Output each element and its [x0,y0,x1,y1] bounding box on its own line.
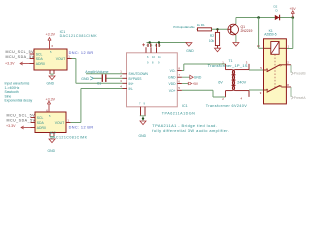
svg-text:VO-: VO- [170,69,176,73]
svg-text:SCL: SCL [37,116,44,120]
svg-text:ADR0: ADR0 [36,62,45,66]
svg-text:C1: C1 [97,82,101,86]
svg-text:GND: GND [47,82,55,86]
svg-text:GND: GND [81,77,89,81]
svg-text:IN-: IN- [129,87,133,91]
svg-text:GND: GND [139,134,147,138]
svg-text:PresetA: PresetA [294,96,307,100]
svg-text:ADR0: ADR0 [37,126,46,130]
svg-text:1k R1: 1k R1 [197,23,205,27]
svg-text:+5V: +5V [192,82,199,86]
svg-text:SDA: SDA [37,121,45,125]
svg-text:SDA: SDA [36,57,44,61]
svg-text:10k: 10k [209,39,215,43]
svg-text:GND: GND [168,76,176,80]
svg-text:GND: GND [186,49,194,53]
svg-text:VDD: VDD [169,82,177,86]
svg-text:TPA6211A1DGN: TPA6211A1DGN [162,112,196,116]
svg-text:2N2219: 2N2219 [241,29,253,33]
svg-text:VO+: VO+ [169,89,176,93]
svg-text:IC1: IC1 [182,104,188,108]
svg-text:+5V: +5V [290,7,297,11]
svg-text:Transformer_1P_1S: Transformer_1P_1S [208,63,248,68]
svg-text:PresetB: PresetB [294,72,307,76]
svg-text:BYPASS: BYPASS [129,77,143,81]
svg-text:MCU_SCL_5V: MCU_SCL_5V [7,114,36,118]
svg-text:+3.3V: +3.3V [46,97,56,101]
svg-text:SHUTDOWN: SHUTDOWN [129,72,149,76]
svg-text:VOUT: VOUT [55,121,64,125]
svg-text:Transformer 6V240V: Transformer 6V240V [206,104,248,108]
svg-text:MCU_SDA_5V: MCU_SDA_5V [6,55,35,59]
svg-text:+3.3V: +3.3V [46,33,56,37]
svg-text:DAC121C081CIMK: DAC121C081CIMK [50,135,88,139]
svg-text:6V: 6V [218,80,223,84]
svg-text:+3.3V: +3.3V [6,124,16,128]
svg-text:VOUT: VOUT [56,57,65,61]
svg-text:MCU_SCL_5V: MCU_SCL_5V [6,50,35,54]
svg-text:DAC121C081CIMK: DAC121C081CIMK [60,34,98,38]
svg-text:IN+: IN+ [129,82,134,86]
svg-text:DNC: 12 BR: DNC: 12 BR [69,51,94,55]
svg-text:R2: R2 [210,34,214,38]
svg-text:240V: 240V [237,80,246,84]
svg-text:MCU_SDA_5V: MCU_SDA_5V [7,118,36,122]
svg-text:AZ850-5: AZ850-5 [264,33,276,37]
svg-text:SCL: SCL [36,52,43,56]
svg-text:GND: GND [194,76,202,80]
svg-text:fully differential 3W audio am: fully differential 3W audio amplifier. [152,128,229,133]
svg-text:PriOutputEnable: PriOutputEnable [173,25,195,29]
svg-text:GND: GND [48,149,56,153]
svg-text:DNC: 12 BR: DNC: 12 BR [69,125,94,129]
svg-text:Exponential decay: Exponential decay [5,99,33,103]
svg-text:+3.3V: +3.3V [5,62,15,66]
svg-text:AmplInVolume: AmplInVolume [85,70,108,74]
